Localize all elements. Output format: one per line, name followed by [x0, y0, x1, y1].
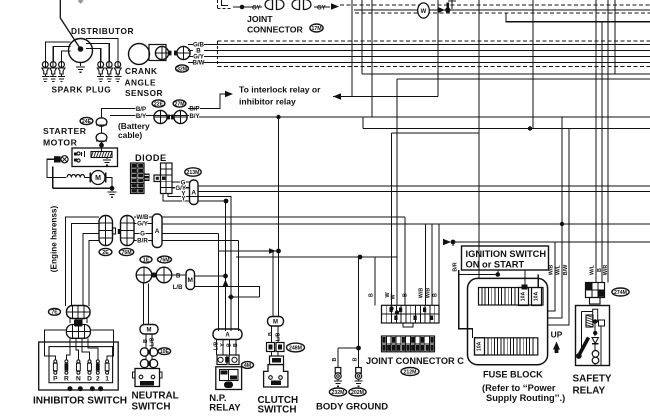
- svg-text:M: M: [188, 277, 193, 284]
- svg-text:M: M: [95, 175, 101, 182]
- svg-text:4M: 4M: [244, 363, 251, 369]
- svg-text:SWITCH: SWITCH: [132, 402, 171, 413]
- svg-text:GY: GY: [317, 6, 326, 12]
- svg-text:B: B: [332, 357, 338, 361]
- svg-text:L/B: L/B: [214, 342, 220, 351]
- svg-text:L/B: L/B: [173, 285, 183, 291]
- svg-text:10E: 10E: [160, 349, 170, 355]
- svg-text:(Refer to ‘‘Power: (Refer to ‘‘Power: [482, 383, 556, 393]
- svg-text:22E: 22E: [154, 101, 164, 107]
- svg-text:24E: 24E: [82, 119, 92, 125]
- svg-text:DIODE: DIODE: [135, 153, 167, 163]
- svg-text:Supply Routing’’.): Supply Routing’’.): [486, 393, 565, 403]
- svg-text:B: B: [268, 332, 274, 336]
- svg-text:B/R: B/R: [453, 262, 459, 271]
- svg-text:G/Y: G/Y: [137, 221, 149, 228]
- svg-text:1: 1: [105, 376, 109, 383]
- svg-text:G: G: [140, 231, 145, 238]
- svg-text:2E: 2E: [102, 250, 109, 256]
- svg-text:B: B: [403, 293, 409, 297]
- svg-text:W/L: W/L: [556, 264, 562, 275]
- svg-text:A: A: [191, 190, 196, 197]
- svg-text:248M: 248M: [289, 345, 302, 351]
- svg-text:M: M: [273, 320, 278, 326]
- svg-text:CRANK: CRANK: [125, 66, 157, 76]
- svg-text:Y: Y: [220, 343, 226, 347]
- svg-text:W/B: W/B: [426, 288, 432, 299]
- svg-text:76M: 76M: [159, 257, 169, 263]
- svg-text:B: B: [352, 357, 358, 361]
- svg-text:W/B: W/B: [549, 265, 555, 276]
- svg-text:JOINT CONNECTOR C: JOINT CONNECTOR C: [366, 356, 464, 366]
- svg-text:17M: 17M: [311, 26, 321, 32]
- svg-text:ON or START: ON or START: [466, 260, 525, 270]
- svg-text:B/Y: B/Y: [189, 113, 200, 120]
- svg-text:7E: 7E: [51, 310, 58, 316]
- svg-text:B/W: B/W: [192, 60, 204, 67]
- svg-text:W: W: [421, 9, 427, 15]
- svg-text:202M: 202M: [351, 390, 364, 396]
- svg-text:SENSOR: SENSOR: [125, 88, 163, 98]
- svg-text:To interlock relay or: To interlock relay or: [239, 85, 321, 95]
- svg-text:B: B: [233, 343, 239, 347]
- svg-text:B/R: B/R: [137, 238, 148, 245]
- svg-text:A: A: [225, 333, 230, 339]
- svg-text:10A: 10A: [534, 291, 540, 301]
- svg-text:ANGLE: ANGLE: [125, 78, 157, 88]
- svg-text:STARTER: STARTER: [43, 126, 87, 136]
- svg-text:RELAY: RELAY: [573, 385, 606, 396]
- svg-text:A: A: [155, 228, 160, 235]
- svg-text:212M: 212M: [404, 369, 417, 375]
- svg-text:W/L: W/L: [590, 264, 596, 275]
- svg-text:B: B: [143, 339, 149, 343]
- svg-text:N: N: [76, 376, 81, 383]
- svg-text:W/R: W/R: [603, 265, 609, 276]
- svg-text:B: B: [433, 293, 439, 297]
- svg-text:GY: GY: [252, 6, 261, 12]
- svg-text:B: B: [369, 293, 375, 297]
- svg-text:M: M: [147, 328, 152, 334]
- svg-text:1E: 1E: [143, 257, 150, 263]
- svg-text:27M: 27M: [174, 101, 184, 107]
- svg-text:B/Y: B/Y: [136, 113, 147, 120]
- svg-text:W/B: W/B: [419, 288, 425, 299]
- svg-text:P: P: [53, 376, 58, 383]
- svg-text:B: B: [227, 343, 233, 347]
- svg-text:R: R: [64, 376, 69, 383]
- svg-text:UP: UP: [551, 330, 563, 340]
- svg-text:IGNITION SWITCH: IGNITION SWITCH: [466, 249, 547, 259]
- svg-text:76M: 76M: [121, 250, 131, 256]
- svg-text:RELAY: RELAY: [209, 402, 241, 413]
- svg-text:SWITCH: SWITCH: [258, 404, 297, 415]
- svg-text:213M: 213M: [187, 170, 200, 176]
- svg-text:B/W: B/W: [563, 264, 569, 275]
- svg-text:BODY GROUND: BODY GROUND: [316, 401, 388, 412]
- svg-text:10A: 10A: [477, 341, 483, 351]
- svg-text:cable): cable): [118, 130, 142, 140]
- svg-text:10A: 10A: [521, 291, 527, 301]
- svg-text:MOTOR: MOTOR: [43, 138, 78, 148]
- svg-text:232M: 232M: [332, 390, 345, 396]
- svg-text:NEUTRAL: NEUTRAL: [132, 391, 179, 402]
- svg-text:SAFETY: SAFETY: [573, 374, 612, 385]
- svg-text:JOINT: JOINT: [247, 14, 273, 24]
- svg-text:32M: 32M: [177, 66, 187, 72]
- svg-text:D: D: [87, 376, 92, 383]
- svg-text:SPARK PLUG: SPARK PLUG: [52, 85, 112, 95]
- svg-text:CONNECTOR: CONNECTOR: [247, 25, 304, 35]
- svg-text:2: 2: [96, 376, 100, 383]
- svg-text:L/B: L/B: [276, 333, 282, 342]
- svg-text:INHIBITOR SWITCH: INHIBITOR SWITCH: [33, 396, 127, 407]
- svg-text:274M: 274M: [614, 290, 627, 296]
- svg-text:DISTRIBUTOR: DISTRIBUTOR: [71, 26, 134, 36]
- svg-text:L/B: L/B: [150, 337, 156, 346]
- svg-text:inhibitor relay: inhibitor relay: [239, 97, 296, 107]
- svg-text:(Engine harenss): (Engine harenss): [50, 206, 59, 273]
- svg-text:FUSE BLOCK: FUSE BLOCK: [483, 370, 543, 380]
